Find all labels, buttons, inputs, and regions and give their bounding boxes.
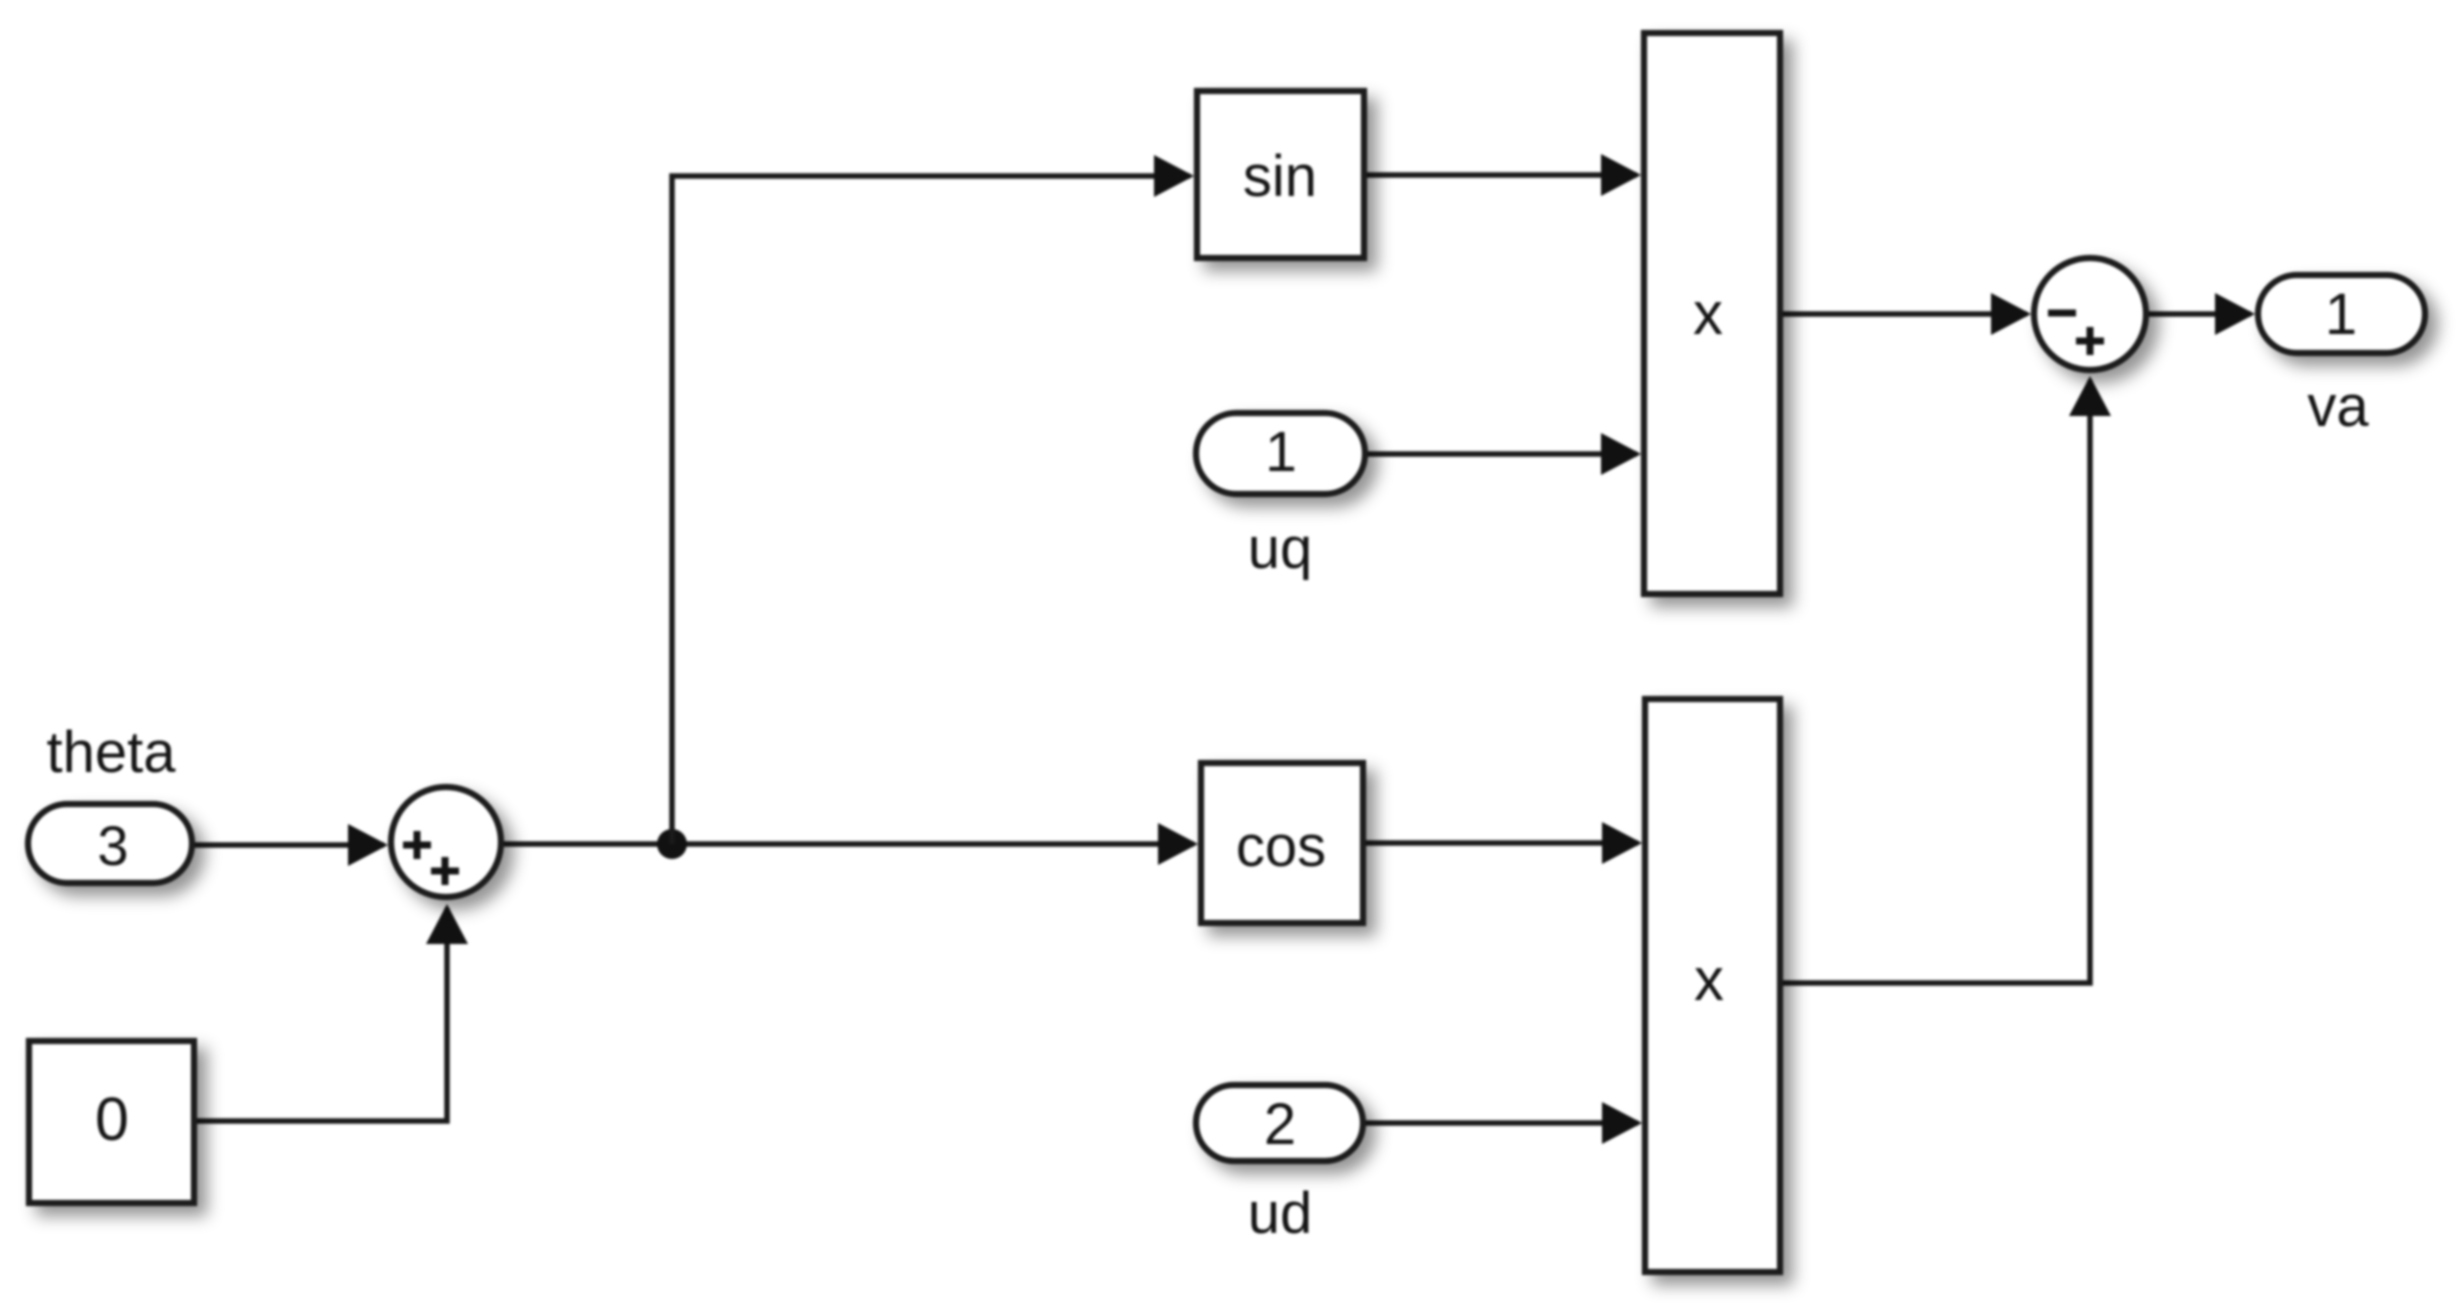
svg-text:x: x bbox=[1693, 280, 1723, 347]
svg-text:uq: uq bbox=[1248, 516, 1313, 581]
svg-text:1: 1 bbox=[2325, 282, 2357, 347]
svg-text:cos: cos bbox=[1236, 814, 1326, 879]
svg-text:3: 3 bbox=[97, 814, 128, 877]
svg-text:0: 0 bbox=[95, 1085, 129, 1153]
svg-text:sin: sin bbox=[1243, 144, 1317, 209]
svg-text:theta: theta bbox=[47, 720, 177, 785]
svg-text:ud: ud bbox=[1248, 1181, 1313, 1246]
svg-text:1: 1 bbox=[1265, 420, 1297, 484]
svg-text:2: 2 bbox=[1264, 1092, 1296, 1157]
svg-text:x: x bbox=[1694, 946, 1724, 1013]
svg-text:va: va bbox=[2307, 374, 2369, 439]
